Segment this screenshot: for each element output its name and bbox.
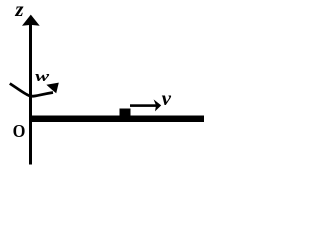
rotation arc (angular velocity) xyxy=(10,84,53,97)
velocity arrowhead xyxy=(154,99,162,111)
velocity arrow shaft xyxy=(130,104,156,107)
svg-text:v: v xyxy=(162,86,172,110)
z-axis shaft xyxy=(29,23,32,165)
z-axis arrowhead xyxy=(22,15,40,26)
block on surface xyxy=(120,109,131,117)
ground surface line xyxy=(29,116,204,123)
svg-text:z: z xyxy=(14,0,24,21)
rotation arrowhead xyxy=(46,83,58,94)
svg-text:O: O xyxy=(13,121,26,141)
svg-text:w: w xyxy=(35,69,50,85)
